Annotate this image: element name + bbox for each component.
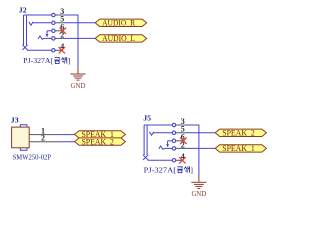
svg-text:PJ-327A[: PJ-327A[ xyxy=(144,165,177,174)
wire J3 pin1 to SPEAK_1 xyxy=(57,134,75,136)
svg-text:SPEAK_2: SPEAK_2 xyxy=(81,137,114,146)
wire J2 pin5 to AUDIO_R xyxy=(63,22,96,24)
J3 pin 1 xyxy=(29,127,57,136)
J5 pin 3 (sleeve) xyxy=(144,117,185,127)
J5 pin 6 (switch contact, not connected) xyxy=(168,132,187,144)
port AUDIO_R xyxy=(95,19,146,28)
J5 pin 4 (not connected) xyxy=(148,152,186,163)
J2 pin 6 (switch contact, not connected) xyxy=(47,22,66,34)
svg-text:J5: J5 xyxy=(143,113,151,122)
svg-text:AUDIO_L: AUDIO_L xyxy=(102,34,135,43)
ground GND (J5) xyxy=(191,175,206,189)
wire J3 pin2 to SPEAK_2 xyxy=(57,141,75,143)
J2 pin 5 (tip contact) xyxy=(29,15,64,26)
ground GND (J2) xyxy=(70,66,85,80)
J2 pin 2 (ring contact) xyxy=(38,30,64,40)
wire J2 pin2 to AUDIO_L xyxy=(63,37,96,39)
svg-text:GND: GND xyxy=(71,83,86,90)
J5 pin 5 (tip contact) xyxy=(149,125,184,136)
J3 pin 2 xyxy=(29,134,57,143)
J5 pin 2 (ring contact) xyxy=(159,140,185,150)
svg-text:J3: J3 xyxy=(11,116,19,125)
connector J3 body (SMW250-02P) xyxy=(12,125,30,150)
svg-text:SMW250-02P: SMW250-02P xyxy=(13,152,52,161)
wire J5 pin2 to SPEAK_1 xyxy=(183,147,215,149)
svg-text:SPEAK_1: SPEAK_1 xyxy=(222,144,255,153)
svg-text:AUDIO_R: AUDIO_R xyxy=(102,19,135,28)
svg-text:J2: J2 xyxy=(19,6,27,15)
port SPEAK_1 xyxy=(215,144,266,153)
wire J5 pin5 to SPEAK_2 xyxy=(183,132,215,134)
J2 pin 4 (not connected) xyxy=(27,42,65,53)
port SPEAK_1 xyxy=(75,130,126,139)
J2 value label PJ-327A[금색] xyxy=(23,56,70,65)
wire J2 pin3 to GND xyxy=(63,15,78,67)
port AUDIO_L xyxy=(95,34,146,43)
J2 switch arrow xyxy=(46,31,49,38)
connector J2 jack body (PJ-327A) xyxy=(22,15,27,50)
J2 pin 3 (sleeve) xyxy=(24,7,65,17)
J5 value label PJ-327A[금색] xyxy=(144,165,194,174)
svg-text:PJ-327A[: PJ-327A[ xyxy=(23,56,53,65)
svg-text:]: ] xyxy=(190,165,193,174)
connector J5 jack body (PJ-327A) xyxy=(143,125,148,160)
svg-text:2: 2 xyxy=(41,134,45,143)
svg-text:GND: GND xyxy=(192,191,207,198)
svg-text:SPEAK_2: SPEAK_2 xyxy=(222,129,255,138)
svg-text:]: ] xyxy=(68,56,71,65)
J5 switch arrow xyxy=(166,141,169,148)
wire J5 pin3 to GND xyxy=(183,125,199,175)
port SPEAK_2 xyxy=(215,129,266,138)
port SPEAK_2 xyxy=(75,137,126,146)
